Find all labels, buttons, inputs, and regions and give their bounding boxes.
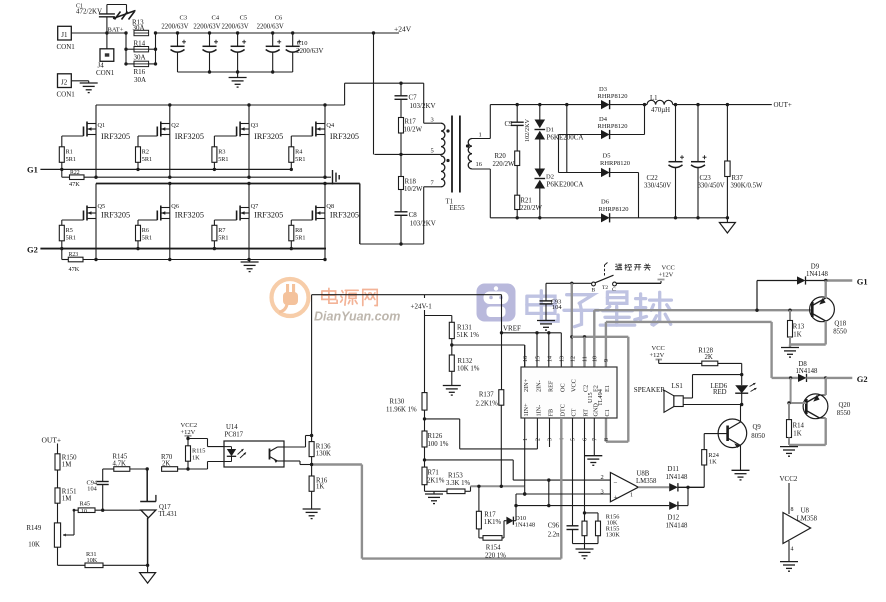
svg-text:C5: C5 xyxy=(240,15,248,22)
resistor R23 47K xyxy=(62,249,83,273)
svg-text:8550: 8550 xyxy=(833,328,847,335)
svg-text:DTC: DTC xyxy=(560,404,567,416)
wire secondary pin16 to bottom bus xyxy=(472,169,601,218)
svg-text:R137: R137 xyxy=(479,392,494,399)
wire R115 bypass to opto pins xyxy=(188,439,224,470)
svg-text:10K: 10K xyxy=(28,542,40,549)
svg-text:FB: FB xyxy=(548,409,555,417)
capacitor C22 330/450V xyxy=(644,105,684,218)
svg-text:1IN+: 1IN+ xyxy=(523,403,530,417)
wire opto emitter to R136 bottom xyxy=(284,461,313,466)
svg-text:C6: C6 xyxy=(275,15,283,22)
ground for Q20 xyxy=(780,447,798,457)
svg-text:C1: C1 xyxy=(604,409,611,416)
svg-text:1M: 1M xyxy=(62,462,71,469)
wire pin1 column xyxy=(523,418,526,496)
svg-text:RHRP8120: RHRP8120 xyxy=(599,206,629,213)
svg-text:R132: R132 xyxy=(458,358,473,365)
wire OUT+ rail xyxy=(673,101,792,109)
svg-text:+24V: +24V xyxy=(394,25,412,34)
speaker LS1 xyxy=(634,375,742,413)
resistor R22 47K xyxy=(62,169,84,187)
resistor R20 220/2W xyxy=(493,151,520,195)
svg-text:U8: U8 xyxy=(801,508,810,515)
svg-text:3: 3 xyxy=(601,489,604,496)
fuse R13 30A xyxy=(132,19,149,36)
ground output (triangle) xyxy=(719,218,735,233)
resistor R7 5R1 xyxy=(212,220,229,250)
node G2 xyxy=(27,245,38,255)
svg-text:104: 104 xyxy=(87,486,97,493)
svg-text:LS1: LS1 xyxy=(672,383,683,390)
svg-text:TL494: TL494 xyxy=(597,389,604,406)
svg-text:R154: R154 xyxy=(486,545,501,552)
watermark DianYuan plug logo xyxy=(272,279,309,316)
svg-text:1N4148: 1N4148 xyxy=(515,522,535,529)
svg-text:470µH: 470µH xyxy=(651,107,670,114)
capacitor C3 2200/63V xyxy=(161,15,188,73)
svg-text:D8: D8 xyxy=(799,361,808,368)
svg-text:C: C xyxy=(612,287,616,293)
transistor Q9 8050 xyxy=(704,405,765,471)
power VCC +12V for switch xyxy=(658,265,675,280)
svg-text:16: 16 xyxy=(476,161,483,168)
resistor R71 2K 1% xyxy=(422,460,445,491)
svg-text:C10: C10 xyxy=(297,40,308,47)
wire +24V to center tap xyxy=(372,31,375,154)
svg-text:R14: R14 xyxy=(793,423,805,430)
op-amp U15 TL494 xyxy=(521,356,617,441)
svg-text:EE55: EE55 xyxy=(450,205,466,212)
svg-text:R5: R5 xyxy=(66,227,73,234)
diode D10 1N4148 xyxy=(504,515,535,529)
resistor R14 1K xyxy=(787,401,805,445)
wire G2 line xyxy=(40,248,326,250)
svg-text:104: 104 xyxy=(552,304,563,311)
wire control left riser to VREF column xyxy=(312,295,502,436)
watermark electron planet text xyxy=(527,291,672,327)
svg-text:220/2W: 220/2W xyxy=(520,205,542,212)
wire switch left to C93 xyxy=(546,282,592,285)
diode D4 RHRP8120 xyxy=(598,105,645,140)
svg-text:VCC: VCC xyxy=(571,379,578,392)
svg-text:R7: R7 xyxy=(218,227,225,234)
ground for J2 xyxy=(80,83,98,93)
svg-text:2200/63V: 2200/63V xyxy=(221,24,248,31)
transistor Q4 IRF3205 xyxy=(291,105,359,177)
svg-text:15: 15 xyxy=(536,356,542,362)
capacitor C7 103/2KV xyxy=(395,83,436,117)
resistor R126 100 1% xyxy=(422,419,449,462)
wire upper drain bus xyxy=(96,103,345,106)
svg-text:2200/63V: 2200/63V xyxy=(296,48,323,55)
svg-text:R151: R151 xyxy=(62,489,77,496)
ground for R132 xyxy=(443,386,461,396)
svg-text:10K 1%: 10K 1% xyxy=(457,366,480,373)
diode D8 1N4148 xyxy=(772,361,828,382)
svg-text:D11: D11 xyxy=(668,466,679,473)
svg-text:2200/63V: 2200/63V xyxy=(193,24,220,31)
svg-text:2: 2 xyxy=(601,474,604,481)
wire opto collector to R136 top xyxy=(284,434,313,447)
resistor R145 4.7K xyxy=(103,454,149,472)
fuse R16 30A xyxy=(126,61,156,84)
ground for U8 xyxy=(780,562,798,572)
svg-text:Q20: Q20 xyxy=(839,402,851,409)
resistor R18 10/2W xyxy=(399,154,424,211)
svg-text:5R1: 5R1 xyxy=(142,156,152,163)
svg-text:10: 10 xyxy=(81,509,87,515)
svg-text:REF: REF xyxy=(548,380,555,392)
svg-text:C23: C23 xyxy=(700,175,712,182)
wire D10 riser xyxy=(514,494,517,521)
resistor R17 1K1% xyxy=(476,486,501,538)
svg-text:R150: R150 xyxy=(62,455,77,462)
node OUT+ sense xyxy=(42,436,62,454)
svg-text:+12V: +12V xyxy=(181,429,196,436)
wire op-amp plus row xyxy=(516,492,610,495)
resistor R130 11.96K 1% xyxy=(386,393,427,421)
op-amp U8B LM358 xyxy=(601,471,657,502)
watermark robot icon xyxy=(477,284,516,322)
svg-text:D9: D9 xyxy=(811,264,820,271)
svg-text:5R1: 5R1 xyxy=(218,156,228,163)
transistor Q2 IRF3205 xyxy=(138,105,204,177)
wire upper source bus xyxy=(84,176,331,179)
svg-text:100 1%: 100 1% xyxy=(428,441,449,448)
LED6 RED xyxy=(711,363,757,406)
svg-text:103/2KV: 103/2KV xyxy=(410,220,436,228)
svg-text:1K: 1K xyxy=(793,431,801,438)
svg-text:R6: R6 xyxy=(142,227,149,234)
transistor Q18 8550 xyxy=(790,281,847,348)
svg-text:+12V: +12V xyxy=(659,272,674,279)
transformer T1 primary winding lower xyxy=(431,148,450,187)
switch 遥控开关 xyxy=(592,263,651,294)
capacitor C8 103/2KV xyxy=(395,211,436,246)
svg-text:1M: 1M xyxy=(62,496,71,503)
svg-text:C4: C4 xyxy=(212,15,220,22)
svg-text:2K: 2K xyxy=(705,354,713,361)
svg-text:16: 16 xyxy=(523,356,529,362)
svg-text:U15: U15 xyxy=(587,392,594,403)
capacitor C1 472/2KV to chassis xyxy=(76,4,136,34)
svg-text:RT: RT xyxy=(583,409,590,417)
capacitor C4 2200/63V xyxy=(193,15,220,73)
svg-text:D4: D4 xyxy=(599,116,608,123)
svg-text:1K1%: 1K1% xyxy=(484,519,502,526)
svg-text:C96: C96 xyxy=(548,523,560,530)
svg-text:4.7K: 4.7K xyxy=(113,460,126,467)
capacitor C10 2200/63V xyxy=(286,31,324,72)
wire +24V-1 column xyxy=(425,310,452,393)
ground for upper sources (rotated) xyxy=(333,170,340,185)
diode D3 RHRP8120 xyxy=(598,86,648,109)
svg-text:IRF3205: IRF3205 xyxy=(254,132,283,141)
svg-text:R17: R17 xyxy=(484,512,496,519)
transformer T1 core xyxy=(452,116,460,193)
svg-text:OUT+: OUT+ xyxy=(42,436,62,445)
svg-text:R16: R16 xyxy=(134,68,146,76)
svg-text:SPEAKER: SPEAKER xyxy=(634,386,665,394)
resistor R21 220/2W xyxy=(515,195,543,219)
transistor Q20 8550 xyxy=(789,378,851,445)
svg-text:U8B: U8B xyxy=(637,471,650,478)
svg-text:VCC: VCC xyxy=(652,345,665,352)
svg-text:Q5: Q5 xyxy=(98,203,106,210)
node BAT+ xyxy=(105,27,124,35)
svg-text:R4: R4 xyxy=(295,149,302,156)
wire feedback node row xyxy=(471,485,525,488)
svg-text:+24V-1: +24V-1 xyxy=(411,303,433,311)
resistor R5 5R1 xyxy=(59,220,76,250)
svg-text:2: 2 xyxy=(536,438,542,441)
resistor R45 10 xyxy=(73,501,141,516)
svg-text:Q7: Q7 xyxy=(251,203,259,210)
svg-text:IRF3205: IRF3205 xyxy=(175,132,204,141)
svg-text:G2: G2 xyxy=(857,374,868,384)
svg-text:R1: R1 xyxy=(66,149,73,156)
resistor R131 51K 1% xyxy=(449,322,479,346)
svg-text:RHRP8120: RHRP8120 xyxy=(600,160,630,167)
resistor R128 2K xyxy=(698,348,741,366)
svg-text:2IN-: 2IN- xyxy=(536,380,543,392)
wire FB pin3 stub xyxy=(549,418,551,447)
svg-text:5: 5 xyxy=(431,148,434,155)
wire rectifier branch verticals xyxy=(559,103,602,173)
ground for C93 xyxy=(537,321,555,331)
svg-text:−: − xyxy=(614,479,618,487)
wire E2 row to Q18 base xyxy=(594,309,812,368)
fuse bank bus wires xyxy=(124,31,157,65)
svg-text:R131: R131 xyxy=(457,325,472,332)
svg-text:U14: U14 xyxy=(226,424,238,431)
svg-text:L1: L1 xyxy=(650,95,658,102)
svg-text:2.2K1%: 2.2K1% xyxy=(476,401,499,408)
svg-text:D12: D12 xyxy=(668,515,680,522)
wire VCC row to C2 C1 xyxy=(572,335,629,367)
svg-text:3.3K 1%: 3.3K 1% xyxy=(446,480,471,487)
svg-text:220/2W: 220/2W xyxy=(493,161,515,168)
svg-text:RED: RED xyxy=(713,389,727,396)
resistor R156 10K xyxy=(582,418,619,544)
diode D5 RHRP8120 xyxy=(600,153,639,218)
transistor Q5 IRF3205 xyxy=(62,184,130,260)
svg-text:Q9: Q9 xyxy=(753,424,762,431)
svg-text:4: 4 xyxy=(791,547,794,553)
wire lower source bus xyxy=(83,258,327,261)
svg-text:VREF: VREF xyxy=(503,325,521,333)
resistor R1 5R1 xyxy=(59,136,76,171)
svg-text:1: 1 xyxy=(630,493,633,499)
wire E1 row to G2 driver xyxy=(606,322,772,378)
svg-text:2200/63V: 2200/63V xyxy=(257,24,284,31)
svg-text:1N4148: 1N4148 xyxy=(666,523,689,530)
ground for lower sources xyxy=(241,260,259,272)
wire VCC pin12 riser xyxy=(570,283,573,367)
capacitor C5 2200/63V xyxy=(221,15,248,73)
resistor R115 1K xyxy=(186,437,206,471)
transistor Q6 IRF3205 xyxy=(138,184,204,260)
svg-text:1K: 1K xyxy=(316,484,324,491)
svg-text:R23: R23 xyxy=(69,252,79,258)
wire VREF row xyxy=(502,331,562,367)
svg-text:30A: 30A xyxy=(134,76,146,84)
svg-text:R8: R8 xyxy=(295,227,302,234)
ground for timing network xyxy=(573,544,599,559)
svg-text:G1: G1 xyxy=(27,165,38,175)
wire R71 node to op-amp minus xyxy=(425,460,611,480)
resistor R70 2K xyxy=(161,454,188,471)
svg-text:1: 1 xyxy=(523,438,529,441)
connector J1 xyxy=(57,26,76,51)
wire R131 junction to pin16 xyxy=(452,345,525,367)
wire center tap line xyxy=(374,153,441,155)
resistor R151 1M xyxy=(55,488,77,523)
resistor R136 130K xyxy=(309,436,331,465)
resistor R137 2.2K 1% xyxy=(476,333,504,487)
resistor R155 130K xyxy=(585,513,621,544)
resistor R24 1K xyxy=(702,434,720,488)
svg-text:VCC: VCC xyxy=(662,265,675,272)
svg-text:D2: D2 xyxy=(546,174,554,181)
ground for TL494 pin7 xyxy=(584,418,602,465)
svg-text:9: 9 xyxy=(604,359,610,362)
resistor R6 5R1 xyxy=(136,220,153,250)
svg-text:VCC2: VCC2 xyxy=(780,475,798,483)
transistor Q1 IRF3205 xyxy=(62,105,130,177)
transformer T1 label xyxy=(446,199,466,213)
svg-text:IRF3205: IRF3205 xyxy=(101,211,130,220)
svg-text:C22: C22 xyxy=(647,175,659,182)
diode D11 1N4148 xyxy=(638,466,704,492)
svg-text:P6KE200CA: P6KE200CA xyxy=(547,181,584,189)
svg-text:130K: 130K xyxy=(316,450,331,457)
resistor R17 10/2W xyxy=(399,118,423,157)
wire G1 line xyxy=(40,168,291,170)
svg-text:B: B xyxy=(592,288,596,294)
resistor R13 1K xyxy=(788,310,805,344)
capacitor C94 104 xyxy=(87,469,109,510)
diode D6 RHRP8120 xyxy=(599,199,730,223)
resistor R16 1K xyxy=(309,465,328,510)
svg-text:OUT+: OUT+ xyxy=(774,101,792,109)
connector J4 xyxy=(96,33,115,77)
svg-text:C9: C9 xyxy=(505,121,514,128)
svg-text:IRF3205: IRF3205 xyxy=(175,211,204,220)
svg-text:LM358: LM358 xyxy=(636,478,657,485)
svg-text:CON1: CON1 xyxy=(57,43,76,51)
svg-text:10/2W: 10/2W xyxy=(404,127,423,134)
svg-text:1N4148: 1N4148 xyxy=(796,368,819,375)
svg-text:3: 3 xyxy=(431,117,434,124)
wire upper drain bus to primary pin 3 xyxy=(345,82,424,124)
svg-text:103/2KV: 103/2KV xyxy=(410,102,436,110)
svg-text:R20: R20 xyxy=(495,153,507,160)
svg-text:13: 13 xyxy=(560,356,566,362)
wire C1 riser xyxy=(606,337,628,442)
power VCC2 +12V for opto xyxy=(181,422,198,439)
svg-text:2.2n: 2.2n xyxy=(548,532,560,539)
svg-text:OC: OC xyxy=(560,383,567,392)
inductor L1 470uH xyxy=(647,95,673,114)
resistor R37 390K/0.5W xyxy=(725,105,763,218)
transistor Q8 IRF3205 xyxy=(291,184,359,260)
wire DTC feedback path xyxy=(312,418,562,559)
capacitor C23 330/450V xyxy=(691,105,725,218)
svg-text:LM358: LM358 xyxy=(797,516,818,523)
svg-text:PC817: PC817 xyxy=(225,432,244,439)
svg-text:IRF3205: IRF3205 xyxy=(330,211,359,220)
svg-text:12: 12 xyxy=(571,356,577,362)
ground for divider (triangle) xyxy=(140,565,156,583)
capacitor C6 2200/63V xyxy=(257,15,284,73)
node VREF xyxy=(500,325,521,335)
svg-text:11: 11 xyxy=(583,356,589,362)
svg-text:5: 5 xyxy=(571,438,577,441)
svg-text:R18: R18 xyxy=(405,179,417,186)
svg-text:1K: 1K xyxy=(709,459,717,466)
svg-text:2IN+: 2IN+ xyxy=(523,378,530,392)
svg-text:CON1: CON1 xyxy=(57,91,76,99)
wire minus row riser xyxy=(547,478,550,505)
wire capacitor bottom bus xyxy=(178,70,293,73)
svg-text:R2: R2 xyxy=(142,149,149,156)
svg-text:C2: C2 xyxy=(583,385,590,392)
node G1 xyxy=(27,165,38,175)
wire pin stubs short xyxy=(524,345,526,367)
svg-text:IRF3205: IRF3205 xyxy=(330,132,359,141)
wire secondary pin1 to rectifier rail xyxy=(472,105,601,139)
svg-text:5R1: 5R1 xyxy=(218,235,228,242)
node G2 output xyxy=(826,374,868,384)
svg-text:E1: E1 xyxy=(604,385,611,392)
ground for capacitor bank xyxy=(229,72,247,87)
svg-text:7: 7 xyxy=(593,438,599,441)
svg-text:G1: G1 xyxy=(857,277,868,287)
svg-text:R115: R115 xyxy=(192,448,205,455)
resistor R31 10K xyxy=(58,551,150,568)
svg-text:Q6: Q6 xyxy=(171,203,179,210)
svg-text:D6: D6 xyxy=(601,199,610,206)
svg-text:R13: R13 xyxy=(793,324,805,331)
diode D12 1N4148 xyxy=(666,487,689,529)
svg-text:G2: G2 xyxy=(27,245,38,255)
svg-text:J1: J1 xyxy=(61,31,68,39)
svg-text:Q2: Q2 xyxy=(171,122,179,129)
svg-text:8050: 8050 xyxy=(751,433,765,440)
svg-text:Q1: Q1 xyxy=(98,122,106,129)
svg-text:R3: R3 xyxy=(218,149,225,156)
svg-text:30A: 30A xyxy=(134,54,146,62)
wire J2 to ground xyxy=(71,81,88,83)
svg-text:R149: R149 xyxy=(27,525,42,532)
op-amp U14 PC817 optocoupler xyxy=(224,424,284,467)
svg-text:330/450V: 330/450V xyxy=(644,183,671,190)
connector J2 xyxy=(57,74,76,99)
transistor Q17 TL431 xyxy=(140,469,177,565)
resistor R4 5R1 xyxy=(289,136,306,171)
fuse R14 30A xyxy=(126,40,156,62)
svg-text:1: 1 xyxy=(479,132,482,139)
svg-text:TL431: TL431 xyxy=(159,511,178,518)
wire lower drain bus xyxy=(96,182,360,185)
svg-text:3: 3 xyxy=(548,438,554,441)
wire +24V rail xyxy=(156,25,412,34)
svg-text:C8: C8 xyxy=(409,211,418,219)
ground for Q18 xyxy=(781,348,799,358)
svg-text:R126: R126 xyxy=(428,433,443,440)
